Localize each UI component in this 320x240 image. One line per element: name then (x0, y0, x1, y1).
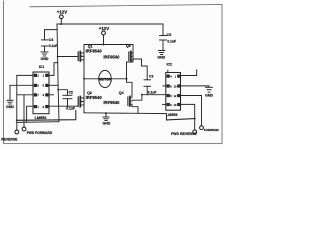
svg-text:IC1: IC1 (39, 65, 44, 69)
svg-text:+12V: +12V (99, 26, 109, 31)
svg-text:IRF9540: IRF9540 (86, 95, 103, 100)
svg-text:IRF9540: IRF9540 (103, 100, 120, 105)
svg-text:IC2: IC2 (167, 62, 172, 66)
svg-text:GND: GND (103, 122, 111, 126)
svg-text:LM556: LM556 (166, 113, 177, 117)
svg-text:0.1uF: 0.1uF (49, 44, 58, 48)
svg-text:0.1uF: 0.1uF (66, 106, 75, 110)
svg-text:FWD FORWARD: FWD FORWARD (27, 131, 53, 135)
svg-text:GND: GND (157, 55, 165, 59)
svg-text:C4: C4 (49, 38, 54, 42)
svg-text:C3: C3 (149, 75, 153, 79)
svg-text:GND: GND (41, 57, 49, 61)
svg-text:FORWARD: FORWARD (204, 128, 219, 132)
svg-text:GND: GND (205, 93, 213, 97)
svg-text:MOTOR: MOTOR (99, 77, 112, 81)
svg-text:GND: GND (6, 105, 14, 109)
svg-text:C5: C5 (167, 33, 172, 37)
svg-text:Q4: Q4 (119, 91, 124, 95)
svg-text:0.1uF: 0.1uF (148, 91, 157, 95)
svg-text:IRF9540: IRF9540 (86, 48, 103, 53)
svg-text:LM556: LM556 (35, 116, 47, 120)
svg-text:+12V: +12V (57, 9, 67, 14)
svg-text:FWD REVERSE: FWD REVERSE (171, 132, 197, 136)
svg-text:C2: C2 (69, 90, 73, 94)
svg-text:0.1uF: 0.1uF (167, 40, 176, 44)
svg-text:IRF9540: IRF9540 (103, 54, 120, 59)
svg-text:Q3: Q3 (126, 44, 131, 48)
svg-text:REVERSE: REVERSE (1, 138, 18, 142)
